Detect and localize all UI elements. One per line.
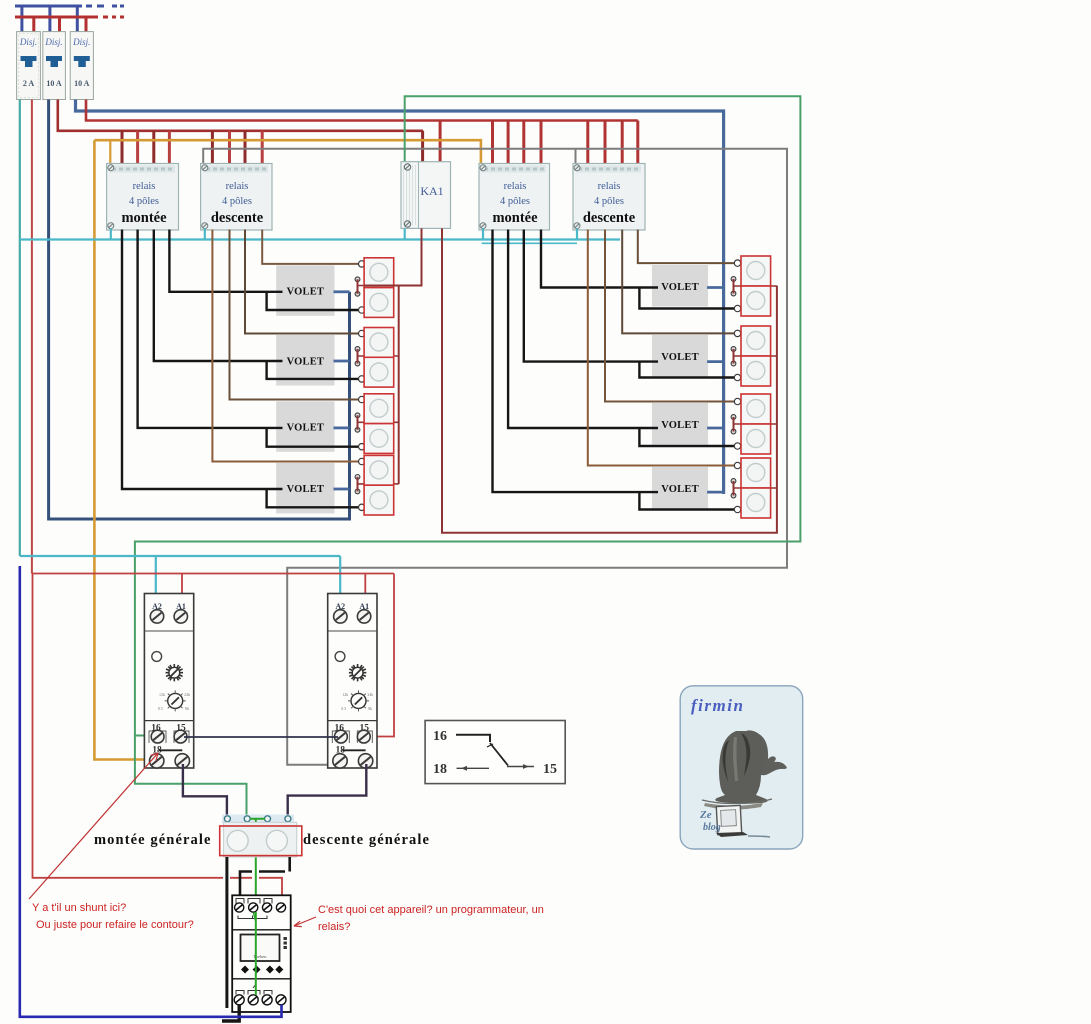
svg-text:firmin: firmin [691, 696, 744, 715]
pushbutton switch S6 [741, 326, 771, 386]
switch terminals V8 [731, 479, 736, 484]
bus cyan neutral y240 [20, 229, 620, 244]
annotation red arrow to shunt [29, 753, 158, 899]
terminal T3 V2 [359, 376, 365, 382]
svg-text:relais: relais [504, 181, 527, 192]
contact diagram box 16-18-15 [425, 721, 565, 784]
wire black return V2 [267, 361, 359, 379]
wire green jumper and drop [250, 819, 265, 905]
switch terminals V2 [355, 347, 360, 352]
svg-text:15: 15 [543, 762, 557, 777]
wire red jumper V5 [733, 279, 735, 294]
svg-text:montée générale: montée générale [94, 832, 212, 848]
wire navy bottom return [20, 566, 282, 1017]
svg-text:0.5: 0.5 [341, 706, 346, 711]
wire black supply V6 [524, 230, 658, 362]
switch terminals V4 [355, 475, 360, 480]
terminal T3 V1 [359, 307, 365, 313]
wire black return V4 [267, 489, 359, 507]
wire gray descente control loop [203, 149, 787, 765]
wire navy timer2-21 to button descente [288, 764, 367, 816]
volet V8 [652, 467, 708, 509]
switch terminals V1 [355, 277, 360, 282]
svg-text:4 pôles: 4 pôles [500, 196, 530, 207]
svg-text:Disj.: Disj. [44, 37, 62, 47]
wire black supply V8 [493, 230, 659, 493]
wire blue stub V6 [707, 360, 724, 363]
wire black supply V1 [169, 230, 282, 292]
svg-text:descente: descente [583, 210, 636, 226]
bus darkred y131 feeding left relays and KA1 [57, 131, 424, 164]
wire blue stub V8 [707, 491, 724, 494]
svg-text:KA1: KA1 [420, 184, 443, 198]
wire orange montee control [94, 140, 481, 759]
terminal T1 V7 [734, 398, 740, 404]
terminal T3 V4 [359, 504, 365, 510]
wire brown supply V3 [230, 230, 359, 400]
svg-text:blog: blog [703, 822, 721, 833]
wire red jumper V3 [357, 415, 359, 430]
wire black return V1 [267, 292, 359, 310]
svg-text:VOLET: VOLET [661, 352, 699, 363]
relay K3 4 poles montee (right) [479, 164, 550, 231]
wire blue stub V4 [334, 488, 350, 491]
wire black button montee down to programmer zone [225, 857, 228, 1008]
wire black supply V5 [541, 230, 658, 288]
terminal T1 V2 [359, 330, 365, 336]
wire brown supply V7 [605, 230, 734, 402]
svg-text:16: 16 [433, 729, 447, 744]
wire red bus right switches from KA1 [442, 228, 777, 532]
terminal T1 V5 [734, 260, 740, 266]
wire blue stub V2 [334, 360, 350, 363]
svg-text:4 pôles: 4 pôles [129, 196, 159, 207]
wire darkred from breaker2 to relay bus [56, 100, 59, 130]
relay KA1 [401, 162, 451, 229]
volet V5 [652, 265, 708, 307]
wire red jumper V1 [357, 279, 359, 294]
wire blue stub V3 [334, 426, 350, 429]
wire crimson from breaker1 down left side [31, 100, 33, 574]
svg-text:Ou juste pour refaire le conto: Ou juste pour refaire le contour? [36, 919, 194, 931]
svg-text:C'est quoi cet appareil? un pr: C'est quoi cet appareil? un programmateu… [318, 904, 544, 916]
volet V7 [652, 403, 708, 445]
wire brown supply V8 [588, 230, 735, 466]
timer T2 [328, 594, 377, 769]
wire blue from breaker3 to right volet bus [76, 100, 724, 495]
svg-text:VOLET: VOLET [287, 484, 325, 495]
terminal T1 V4 [359, 458, 365, 464]
svg-text:VOLET: VOLET [287, 356, 325, 367]
pushbutton switch S7 [741, 394, 771, 454]
relay K2 4 poles descente [201, 164, 272, 231]
switch terminals V3 [355, 413, 360, 418]
svg-text:montée: montée [492, 210, 538, 226]
pushbutton switch S8 [741, 458, 771, 518]
pushbutton switch S1 [364, 258, 394, 318]
breaker Disj.2 10A [43, 32, 66, 100]
wire black return V3 [267, 428, 359, 447]
wire brown supply V6 [622, 230, 734, 334]
svg-text:Ze: Ze [699, 809, 712, 821]
terminal T1 V3 [359, 396, 365, 402]
terminal T3 V7 [734, 443, 740, 449]
terminal T1 V8 [734, 462, 740, 468]
wire black supply V7 [508, 230, 658, 429]
pushbutton switch S5 [741, 256, 771, 316]
wire navy timer1-21 to button montee [183, 764, 227, 816]
svg-text:VOLET: VOLET [287, 287, 325, 298]
svg-text:descente générale: descente générale [303, 832, 430, 848]
svg-text:relais: relais [598, 181, 621, 192]
svg-text:relais: relais [133, 181, 156, 192]
orange stub to relay1 screw [109, 140, 111, 164]
gray stub to relay4 screw [575, 149, 577, 164]
terminal T1 V1 [359, 261, 365, 267]
wire red jumper V6 [733, 349, 735, 364]
terminal T3 V3 [359, 444, 365, 450]
svg-text:descente: descente [211, 210, 264, 226]
wire black return V7 [639, 428, 734, 446]
wire teal from breaker1 down left side [19, 100, 21, 557]
svg-text:24h: 24h [367, 692, 373, 697]
wire darkred from breaker3 to crimson bus [85, 100, 88, 121]
net L1 blue phase bus [15, 6, 124, 32]
wire black button descente down then left [240, 857, 290, 903]
wire black return V8 [639, 492, 734, 509]
svg-text:18: 18 [433, 762, 447, 777]
switch terminals V5 [731, 277, 736, 282]
svg-text:Disj.: Disj. [19, 37, 37, 47]
wire link timer1-15 to timer2-16 [184, 736, 338, 738]
wire blue stub V5 [707, 286, 724, 289]
wire red jumper V7 [733, 417, 735, 432]
timer T1 [144, 594, 193, 769]
relay K1 4 poles montee [107, 164, 179, 231]
svg-text:VOLET: VOLET [661, 282, 699, 293]
svg-text:relais: relais [226, 181, 249, 192]
svg-text:12h: 12h [159, 692, 165, 697]
volet V4 [276, 463, 334, 514]
general switch terminals strip [222, 815, 294, 824]
switch terminals V7 [731, 415, 736, 420]
pushbutton switch S3 [364, 394, 394, 454]
wire black supply V4 [122, 230, 283, 490]
terminal T3 V8 [734, 506, 740, 512]
terminal T3 V5 [734, 305, 740, 311]
switch terminals V6 [731, 347, 736, 352]
breaker Disj.3 10A [70, 32, 93, 100]
svg-text:8h: 8h [185, 706, 189, 711]
wire brown supply V2 [245, 230, 359, 334]
wire steelblue from breaker2 down to volet return bus [49, 100, 350, 520]
wire green through programmer [255, 912, 257, 995]
pushbutton switch S2 [364, 328, 394, 388]
wire black return V5 [639, 288, 734, 309]
green stub to timer1 16 [135, 735, 152, 737]
svg-text:2 A: 2 A [23, 79, 35, 88]
volet V3 [276, 401, 334, 452]
wire blue stub V1 [334, 290, 350, 293]
terminal T1 V6 [734, 330, 740, 336]
volet V6 [652, 335, 708, 377]
bus cyan lower y556 [20, 556, 340, 612]
svg-text:VOLET: VOLET [661, 420, 699, 431]
bus crimson y120 feeding KA1 and right relays [85, 121, 638, 164]
relay K4 4 poles descente (right) [573, 164, 645, 231]
svg-text:montée: montée [121, 210, 167, 226]
svg-text:VOLET: VOLET [661, 484, 699, 495]
wire blue stub V7 [707, 427, 724, 430]
annotation red arrow to programmer [294, 917, 316, 926]
svg-text:VOLET: VOLET [287, 423, 325, 434]
wire black return V6 [639, 362, 734, 378]
svg-text:Disj.: Disj. [72, 37, 90, 47]
svg-text:4 pôles: 4 pôles [222, 196, 252, 207]
wire red jumper V4 [357, 477, 359, 492]
svg-text:0.5: 0.5 [158, 706, 163, 711]
volet V1 [276, 265, 334, 316]
wire red rect left-bottom to programmer [33, 574, 283, 904]
svg-text:24h: 24h [184, 692, 190, 697]
wire black supply V2 [154, 230, 283, 362]
firmin logo card [680, 686, 803, 849]
volet V2 [276, 335, 334, 386]
wire black supply V3 [138, 230, 283, 428]
wire red jumper V2 [357, 349, 359, 364]
wire brown supply V4 [212, 230, 358, 462]
svg-text:10 A: 10 A [74, 79, 90, 88]
wire brown supply V1 [262, 230, 358, 264]
wire red jumper V8 [733, 481, 735, 496]
svg-text:12h: 12h [342, 692, 348, 697]
net L2 red phase bus [15, 17, 124, 32]
wire green loop KA1 to timer [135, 96, 801, 815]
svg-text:relais?: relais? [318, 921, 350, 933]
programmer box [232, 895, 291, 1012]
svg-text:8h: 8h [368, 706, 372, 711]
breaker Disj.1 2A [17, 32, 41, 100]
terminal T3 V6 [734, 374, 740, 380]
wire red bus timers y573 [32, 574, 394, 737]
pushbutton switch S4 [364, 455, 394, 515]
svg-text:4 pôles: 4 pôles [594, 196, 624, 207]
general pushbutton box [224, 822, 297, 857]
wire red bus left switches from KA1 [364, 228, 422, 484]
svg-text:Y a t'il un shunt ici?: Y a t'il un shunt ici? [32, 902, 126, 914]
wire black programmer bottom [222, 1005, 239, 1021]
wire brown supply V5 [638, 230, 735, 264]
svg-text:10 A: 10 A [46, 79, 62, 88]
